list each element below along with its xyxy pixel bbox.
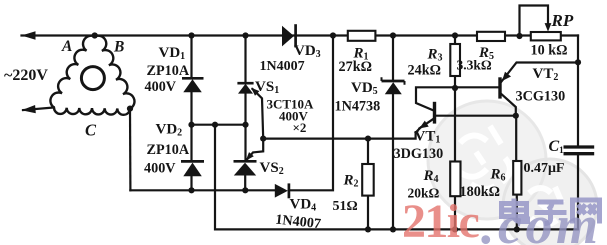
svg-text:51Ω: 51Ω bbox=[333, 199, 358, 214]
svg-text:21ic: 21ic bbox=[402, 195, 480, 245]
svg-text:B: B bbox=[113, 39, 124, 56]
svg-text:1N4007: 1N4007 bbox=[260, 59, 305, 74]
svg-text:10 kΩ: 10 kΩ bbox=[531, 43, 568, 59]
svg-text:A: A bbox=[61, 38, 72, 55]
svg-text:~220V: ~220V bbox=[4, 67, 48, 84]
svg-text:RP: RP bbox=[551, 11, 574, 30]
svg-text:27kΩ: 27kΩ bbox=[339, 59, 372, 75]
svg-text:0.47μF: 0.47μF bbox=[524, 161, 565, 176]
svg-text:400V: 400V bbox=[145, 79, 177, 95]
svg-text:.com: .com bbox=[481, 195, 601, 245]
svg-text:24kΩ: 24kΩ bbox=[408, 63, 441, 79]
svg-text:C: C bbox=[85, 121, 97, 140]
svg-text:ZP10A: ZP10A bbox=[147, 142, 190, 158]
svg-text:400V: 400V bbox=[144, 161, 176, 177]
svg-text:1N4738: 1N4738 bbox=[335, 99, 381, 115]
svg-text:3CG130: 3CG130 bbox=[516, 89, 566, 105]
svg-text:3DG130: 3DG130 bbox=[394, 146, 444, 162]
svg-text:3.3kΩ: 3.3kΩ bbox=[457, 58, 492, 73]
svg-text:ZP10A: ZP10A bbox=[147, 63, 190, 79]
svg-text:×2: ×2 bbox=[293, 120, 307, 135]
